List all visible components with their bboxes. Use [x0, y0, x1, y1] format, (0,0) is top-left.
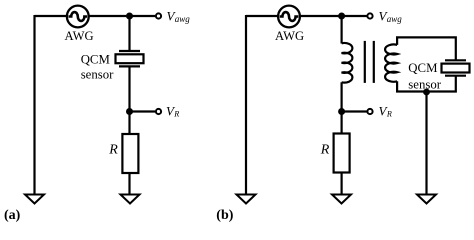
- label V_awg (a): [167, 9, 191, 24]
- terminal: (a) V_R open circle: [156, 109, 161, 114]
- transformer core: two vertical bars: [365, 41, 374, 83]
- wire: (a) left vertical rail down to ground: [33, 15, 35, 194]
- ground: (b) left ground symbol: [237, 195, 256, 204]
- source AWG (b): circle with sine: [278, 6, 300, 28]
- svg-text:R: R: [320, 143, 330, 158]
- wire: (b) bottom junction down to ground: [425, 92, 427, 195]
- node: (a) V_awg junction dot: [126, 13, 133, 20]
- wire: (a) top-left horizontal from left rail to AWG: [35, 15, 68, 17]
- source AWG (a): circle with sine: [67, 6, 89, 28]
- svg-text:R: R: [108, 143, 118, 158]
- wire: (b) secondary top stub and top wire to crystal: [397, 37, 456, 60]
- ground: (a) left ground symbol: [25, 195, 44, 204]
- wire: (a) AWG to node V_awg junction: [89, 15, 155, 17]
- wire: (b) top-left horizontal from left rail to AWG: [246, 15, 278, 17]
- wire: (b) primary bottom down to V_R junction: [341, 82, 343, 114]
- wire: (b) junction down to transformer primary: [341, 16, 343, 44]
- wire: (a) V_R junction down to resistor: [128, 112, 130, 135]
- label V_R (b): [379, 104, 392, 119]
- svg-text:AWG: AWG: [65, 29, 94, 43]
- wire: (b) AWG to V_awg junction and terminal: [300, 15, 367, 17]
- crystal QCM sensor (a): [116, 51, 144, 66]
- node: (b) V_R junction dot: [338, 108, 345, 115]
- svg-text:(b): (b): [216, 208, 233, 223]
- wire: (b) resistor down to ground: [341, 173, 343, 195]
- label V_R (a): [166, 104, 179, 119]
- wire: (a) crystal down to V_R junction: [128, 66, 130, 114]
- wire: (b) left vertical rail down to ground: [245, 15, 247, 194]
- svg-text:awg: awg: [387, 14, 403, 24]
- ground: (a) bottom ground under resistor: [121, 195, 140, 204]
- terminal: (a) V_awg open circle: [156, 13, 161, 18]
- inductor: transformer secondary winding L2: [385, 44, 397, 81]
- wire: (a) junction to V_R terminal: [130, 110, 156, 112]
- svg-text:QCM: QCM: [81, 52, 110, 66]
- ground: (b) right ground under QCM: [417, 195, 436, 204]
- wire: (b) V_R junction down to resistor: [341, 112, 343, 134]
- node: (b) V_awg junction dot: [338, 13, 345, 20]
- svg-text:R: R: [173, 109, 179, 118]
- svg-text:(a): (a): [4, 208, 21, 223]
- inductor: transformer primary winding L1: [342, 43, 353, 83]
- svg-text:AWG: AWG: [275, 29, 304, 43]
- terminal: (b) V_R open circle: [367, 109, 372, 114]
- node: (a) V_R junction dot: [126, 108, 133, 115]
- resistor R (a): [122, 134, 138, 173]
- terminal: (b) V_awg open circle: [367, 13, 372, 18]
- node: (b) junction dot on bottom wire: [423, 89, 430, 96]
- wire: (b) crystal bottom down and bottom wire back to secondary: [397, 76, 456, 92]
- label V_awg (b): [379, 9, 403, 24]
- svg-text:QCM: QCM: [408, 61, 437, 75]
- resistor R (b): [334, 134, 350, 173]
- svg-text:sensor: sensor: [81, 67, 114, 81]
- label QCM sensor (a): [81, 52, 114, 81]
- wire: (a) resistor down to ground: [128, 173, 130, 194]
- crystal QCM sensor (b): [442, 60, 470, 75]
- wire: (b) junction to V_R terminal: [342, 110, 367, 112]
- label QCM sensor (b): [408, 61, 441, 92]
- wire: (a) junction down to QCM crystal: [128, 16, 130, 51]
- svg-text:R: R: [386, 109, 392, 118]
- svg-text:awg: awg: [175, 14, 191, 24]
- ground: (b) bottom ground under resistor: [332, 195, 351, 204]
